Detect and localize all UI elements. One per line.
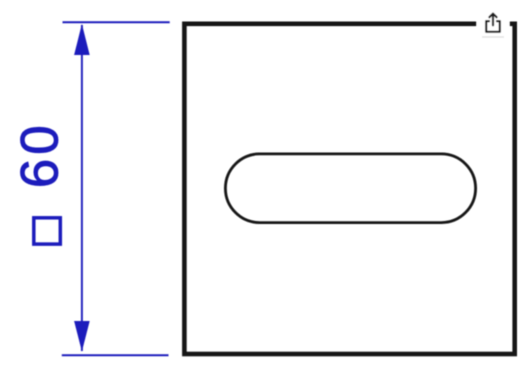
- dimension line vertical: [81, 25, 83, 351]
- svg-text:60: 60: [11, 121, 70, 188]
- dimension arrow top: [74, 24, 90, 55]
- slot (obround cutout): [225, 154, 475, 223]
- dimension extension line top: [63, 21, 170, 23]
- dimension extension line bottom: [62, 354, 169, 356]
- faint smudge line under icon: [482, 36, 504, 38]
- outer square plate outline: [184, 24, 514, 354]
- square section symbol: [34, 218, 61, 244]
- share icon backdrop: [477, 10, 510, 42]
- share icon: [486, 14, 500, 32]
- dimension arrow bottom: [74, 321, 90, 352]
